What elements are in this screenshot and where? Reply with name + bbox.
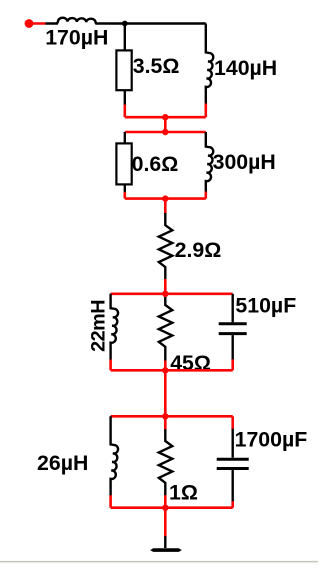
svg-text:300µH: 300µH (213, 150, 276, 174)
wire (red below L2) (205, 104, 208, 118)
wire (red below R3 to block3) (164, 279, 167, 294)
wire (red bottom rail block1) (125, 116, 206, 119)
wire (red stub block1 to block2) (164, 117, 167, 132)
svg-text:140µH: 140µH (214, 56, 277, 80)
wire (red, terminal to L1) (29, 22, 46, 25)
inductor L1 170uH (46, 18, 206, 24)
wire (red top rail block3) (111, 292, 233, 295)
resistor R4 45ohm (zigzag) (159, 294, 173, 362)
resistor R2 0.6ohm (box) (116, 143, 131, 184)
wire (red below R4) (164, 361, 167, 371)
node junction (black) (122, 21, 128, 27)
svg-text:1700µF: 1700µF (235, 428, 308, 452)
inductor L5 26uH (111, 416, 118, 496)
wire (red below C1) (231, 359, 234, 370)
wire (red bottom rail block3) (111, 369, 233, 372)
node (red, block1 bottom) (162, 114, 168, 120)
svg-text:170µH: 170µH (45, 26, 108, 50)
wire (red stub block3 to block4) (164, 370, 167, 416)
inductor L3 300uH (206, 132, 213, 193)
wire (black lead below R1) (124, 90, 126, 105)
svg-text:2.9Ω: 2.9Ω (175, 238, 222, 262)
svg-text:3.5Ω: 3.5Ω (133, 54, 180, 78)
wire (red top rail block2) (125, 131, 206, 134)
wire (black lead above R2) (124, 132, 126, 143)
node (red, block2 top) (162, 129, 168, 135)
node (red, block4 top) (162, 413, 168, 419)
separator line (bottom) (0, 561, 318, 563)
resistor R3 2.9ohm (zigzag) (159, 213, 173, 280)
wire (red below L4) (109, 360, 112, 371)
wire (red top rail block4) (111, 415, 233, 418)
node (red, block4 bottom) (162, 505, 168, 511)
svg-text:510µF: 510µF (235, 294, 296, 318)
wire (red to ground) (164, 508, 167, 538)
wire (red below L3) (205, 192, 208, 199)
wire (red below L5) (109, 495, 112, 508)
wire (red above R5) (164, 416, 167, 430)
resistor R5 1ohm (zigzag) (159, 429, 173, 496)
inductor L4 22mH (111, 294, 118, 361)
svg-text:26µH: 26µH (37, 451, 88, 475)
svg-text:22mH: 22mH (87, 300, 109, 352)
wire (black lead below R2) (124, 184, 126, 193)
wire (red below block2) (164, 199, 167, 214)
node (red, block2 bottom) (162, 195, 168, 201)
node (red, block3 bottom) (162, 367, 168, 373)
wire (black, junction down to R1) (124, 24, 126, 51)
capacitor C1 510uF (219, 294, 247, 361)
wire (red bottom rail block2) (125, 197, 206, 200)
resistor R1 3.5ohm (box) (116, 50, 131, 90)
wire (red bottom rail block4) (111, 506, 233, 509)
wire (red below R2) (124, 192, 127, 199)
ground (150, 536, 182, 552)
input terminal (red) (25, 19, 34, 28)
wire (red below R5) (164, 495, 167, 508)
wire (red below R1 to bottom rail) (124, 105, 127, 118)
node (red, block3 top) (162, 291, 168, 297)
svg-text:0.6Ω: 0.6Ω (132, 152, 179, 176)
capacitor C2 1700uF (217, 416, 249, 507)
inductor L2 140uH (206, 24, 213, 105)
svg-text:1Ω: 1Ω (169, 481, 198, 505)
